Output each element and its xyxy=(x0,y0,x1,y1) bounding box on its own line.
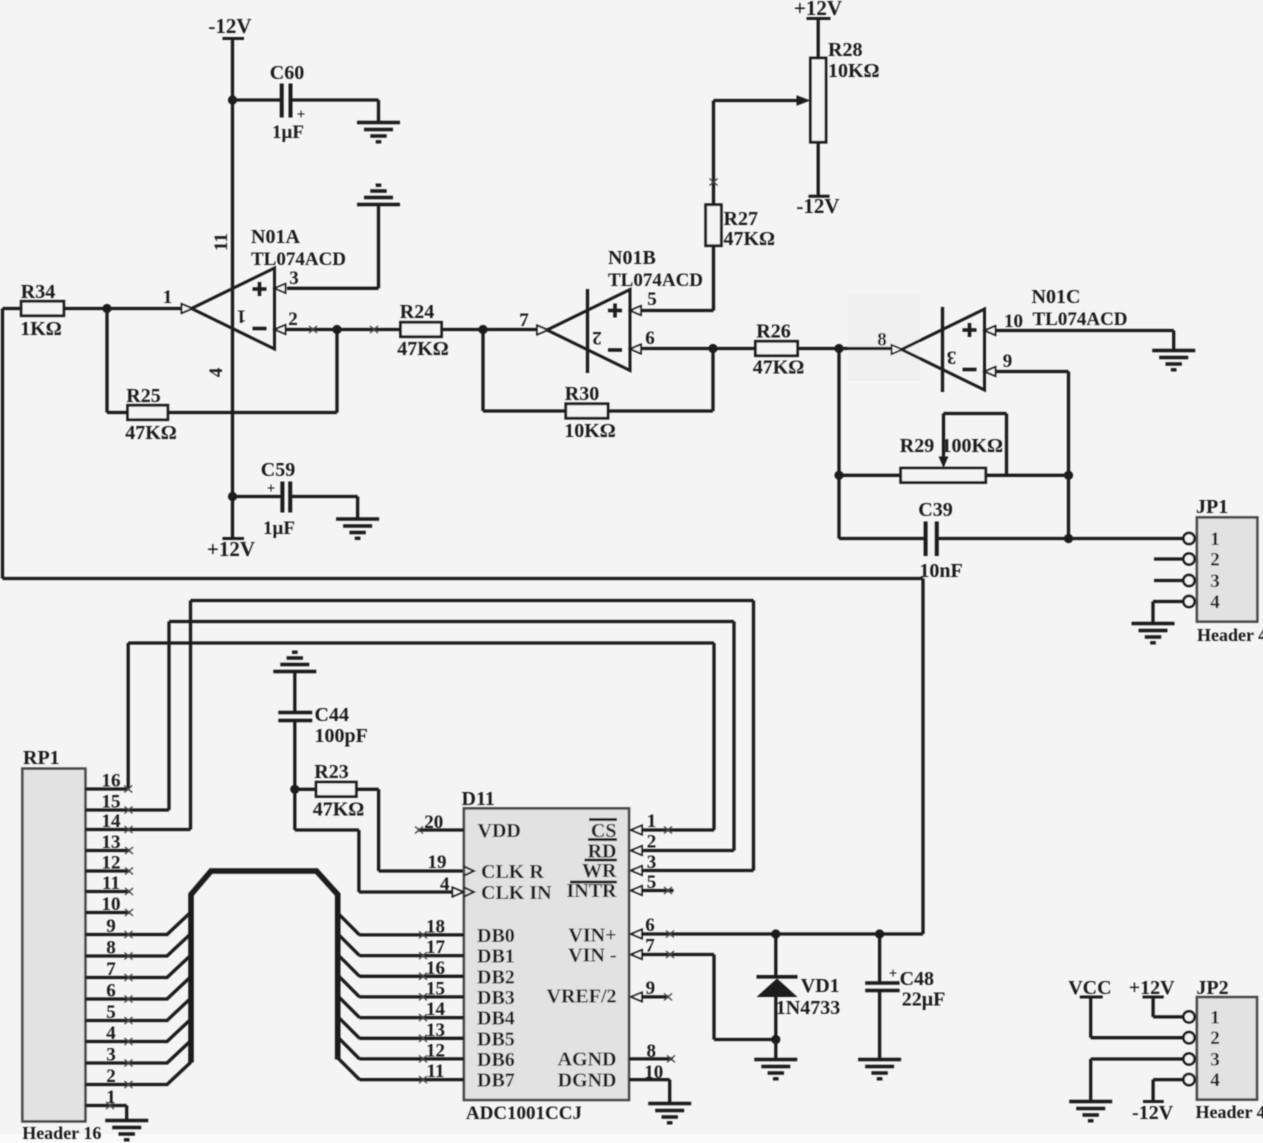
svg-text:DB2: DB2 xyxy=(477,966,515,988)
svg-text:+: + xyxy=(889,966,898,982)
svg-text:47KΩ: 47KΩ xyxy=(125,422,177,444)
svg-text:+12V: +12V xyxy=(207,537,255,561)
svg-text:DB0: DB0 xyxy=(477,925,515,947)
svg-text:47KΩ: 47KΩ xyxy=(753,357,805,379)
svg-text:4: 4 xyxy=(1210,1070,1220,1091)
svg-text:VDD: VDD xyxy=(478,820,521,842)
svg-text:Header 4: Header 4 xyxy=(1197,625,1263,645)
svg-text:TL074ACD: TL074ACD xyxy=(251,249,346,270)
svg-text:10KΩ: 10KΩ xyxy=(828,60,880,82)
svg-text:11: 11 xyxy=(211,233,232,251)
svg-text:+: + xyxy=(267,481,276,497)
svg-text:1: 1 xyxy=(237,306,247,327)
svg-text:4: 4 xyxy=(1210,592,1220,613)
svg-text:C44: C44 xyxy=(315,704,349,726)
svg-text:JP2: JP2 xyxy=(1196,977,1228,999)
svg-text:R26: R26 xyxy=(756,321,790,343)
svg-text:17: 17 xyxy=(426,937,446,958)
svg-text:3: 3 xyxy=(647,852,657,873)
svg-text:10: 10 xyxy=(644,1062,663,1083)
svg-text:R34: R34 xyxy=(21,281,55,303)
svg-text:1N4733: 1N4733 xyxy=(776,997,840,1019)
svg-text:1: 1 xyxy=(163,287,173,308)
svg-text:5: 5 xyxy=(647,289,657,310)
svg-text:-12V: -12V xyxy=(208,14,251,38)
svg-text:DB7: DB7 xyxy=(477,1070,515,1092)
svg-text:CLK IN: CLK IN xyxy=(481,882,552,904)
svg-text:1KΩ: 1KΩ xyxy=(20,318,62,340)
svg-text:2: 2 xyxy=(647,832,657,853)
svg-text:DB4: DB4 xyxy=(477,1008,515,1030)
svg-text:100pF: 100pF xyxy=(315,725,368,747)
svg-text:7: 7 xyxy=(519,310,529,331)
svg-text:6: 6 xyxy=(645,328,655,349)
svg-text:N01A: N01A xyxy=(251,226,300,248)
svg-text:13: 13 xyxy=(426,1020,445,1041)
svg-text:CLK R: CLK R xyxy=(481,861,544,883)
svg-text:47KΩ: 47KΩ xyxy=(724,228,776,250)
svg-text:47KΩ: 47KΩ xyxy=(313,799,365,821)
svg-text:C59: C59 xyxy=(261,459,295,481)
svg-text:TL074ACD: TL074ACD xyxy=(608,270,703,291)
svg-text:N01B: N01B xyxy=(608,247,656,269)
svg-text:JP1: JP1 xyxy=(1196,496,1228,518)
svg-text:Header 16: Header 16 xyxy=(22,1123,101,1143)
svg-text:C60: C60 xyxy=(270,62,304,84)
svg-text:9: 9 xyxy=(1003,351,1013,372)
svg-text:R29: R29 xyxy=(900,435,934,457)
svg-text:2: 2 xyxy=(288,309,298,330)
svg-text:12: 12 xyxy=(426,1040,445,1061)
svg-text:19: 19 xyxy=(428,852,447,873)
svg-text:11: 11 xyxy=(427,1061,445,1082)
svg-text:VIN -: VIN - xyxy=(568,945,616,967)
svg-text:3: 3 xyxy=(1210,1050,1220,1071)
svg-text:18: 18 xyxy=(426,916,445,937)
svg-text:VREF/2: VREF/2 xyxy=(547,986,617,1008)
svg-text:2: 2 xyxy=(1210,550,1220,571)
svg-text:8: 8 xyxy=(877,330,887,351)
svg-text:10KΩ: 10KΩ xyxy=(564,420,616,442)
svg-text:4: 4 xyxy=(440,874,450,895)
svg-text:1μF: 1μF xyxy=(263,518,295,539)
svg-text:VIN+: VIN+ xyxy=(568,925,616,947)
svg-text:15: 15 xyxy=(426,978,445,999)
svg-text:DB1: DB1 xyxy=(477,946,515,968)
svg-text:R28: R28 xyxy=(828,39,862,61)
svg-text:DB6: DB6 xyxy=(477,1049,515,1071)
svg-text:1: 1 xyxy=(1210,529,1220,550)
svg-text:AGND: AGND xyxy=(558,1049,617,1071)
svg-text:1: 1 xyxy=(1210,1007,1220,1028)
svg-text:ADC1001CCJ: ADC1001CCJ xyxy=(466,1103,582,1124)
svg-text:100KΩ: 100KΩ xyxy=(942,435,1004,457)
svg-text:7: 7 xyxy=(645,936,655,957)
svg-text:1: 1 xyxy=(647,811,657,832)
svg-text:R23: R23 xyxy=(314,761,348,783)
svg-text:-12V: -12V xyxy=(1132,1102,1174,1124)
svg-text:5: 5 xyxy=(647,872,657,893)
svg-text:N01C: N01C xyxy=(1032,286,1081,308)
svg-text:R24: R24 xyxy=(400,301,434,323)
svg-text:DGND: DGND xyxy=(558,1070,617,1092)
svg-text:TL074ACD: TL074ACD xyxy=(1033,309,1128,330)
svg-text:16: 16 xyxy=(426,958,445,979)
svg-text:-12V: -12V xyxy=(796,194,839,218)
svg-text:D11: D11 xyxy=(462,788,495,810)
svg-text:VD1: VD1 xyxy=(801,975,840,997)
svg-text:9: 9 xyxy=(646,978,656,999)
svg-text:WR: WR xyxy=(582,860,617,882)
svg-text:2: 2 xyxy=(592,327,602,348)
svg-text:1μF: 1μF xyxy=(272,122,304,143)
svg-text:6: 6 xyxy=(645,915,655,936)
svg-text:C39: C39 xyxy=(918,499,952,521)
svg-text:DB3: DB3 xyxy=(477,987,515,1009)
svg-text:RP1: RP1 xyxy=(23,747,60,769)
svg-text:47KΩ: 47KΩ xyxy=(397,338,449,360)
svg-text:R27: R27 xyxy=(724,208,758,230)
svg-text:22μF: 22μF xyxy=(902,989,946,1011)
svg-text:3: 3 xyxy=(289,268,299,289)
svg-text:R30: R30 xyxy=(565,383,599,405)
svg-text:3: 3 xyxy=(1210,571,1220,592)
svg-text:10nF: 10nF xyxy=(919,560,962,582)
svg-text:8: 8 xyxy=(646,1041,656,1062)
svg-text:DB5: DB5 xyxy=(477,1028,515,1050)
svg-text:+: + xyxy=(297,107,306,123)
svg-text:4: 4 xyxy=(206,367,227,377)
svg-text:14: 14 xyxy=(426,999,446,1020)
svg-text:2: 2 xyxy=(1210,1028,1220,1049)
svg-text:R25: R25 xyxy=(126,385,160,407)
svg-text:Header 4: Header 4 xyxy=(1196,1102,1263,1122)
svg-text:20: 20 xyxy=(424,812,443,833)
svg-text:3: 3 xyxy=(947,347,957,368)
svg-text:C48: C48 xyxy=(900,968,934,990)
